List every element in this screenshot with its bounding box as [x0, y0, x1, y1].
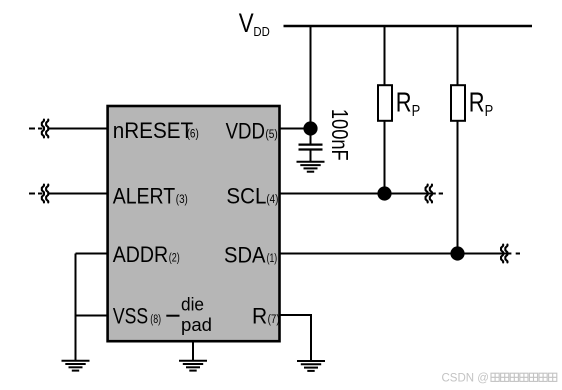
svg-text:CSDN @: CSDN @ [442, 373, 489, 385]
svg-text:DD: DD [253, 24, 269, 39]
svg-text:R: R [396, 86, 412, 117]
svg-text:P: P [412, 103, 421, 120]
svg-text:nRESET: nRESET [113, 118, 194, 143]
svg-text:V: V [239, 8, 254, 38]
svg-text:(6): (6) [187, 127, 199, 141]
svg-text:R: R [252, 304, 267, 329]
svg-text:VSS: VSS [113, 304, 148, 329]
svg-text:(4): (4) [266, 192, 278, 206]
svg-text:R: R [469, 86, 485, 117]
svg-text:die: die [181, 295, 204, 315]
svg-text:100nF: 100nF [327, 109, 353, 161]
svg-text:(1): (1) [267, 251, 278, 265]
svg-text:ADDR: ADDR [113, 242, 168, 267]
svg-text:SDA: SDA [224, 242, 266, 267]
svg-text:(8): (8) [150, 312, 161, 326]
svg-text:ALERT: ALERT [113, 183, 176, 208]
svg-text:(2): (2) [169, 251, 180, 265]
svg-text:VDD: VDD [226, 118, 265, 143]
svg-text:(7): (7) [268, 312, 280, 326]
svg-text:SCL: SCL [226, 183, 266, 208]
svg-text:P: P [485, 103, 494, 120]
svg-text:(5): (5) [265, 127, 277, 141]
svg-text:pad: pad [181, 315, 212, 335]
svg-text:(3): (3) [176, 192, 188, 206]
